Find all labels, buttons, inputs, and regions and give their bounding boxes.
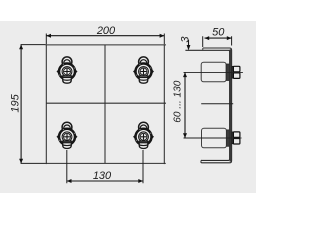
plate front view outline xyxy=(46,44,167,164)
dimension 195 (left height) xyxy=(9,45,45,164)
plate horizontal center line xyxy=(46,102,166,104)
lower hex nut xyxy=(233,132,240,144)
svg-text:195: 195 xyxy=(9,93,21,112)
damper D1 top-left xyxy=(57,57,78,83)
side view bracket inner surface xyxy=(185,48,229,162)
plate vertical center line xyxy=(104,45,106,163)
upper bolt center line xyxy=(184,71,243,73)
upper damper flange washer xyxy=(226,64,229,81)
page background xyxy=(0,0,256,214)
upper damper body side view xyxy=(201,62,226,82)
upper hex nut xyxy=(233,66,240,78)
dimension 130 (bottom damper spacing) xyxy=(67,150,143,183)
gray drawing canvas xyxy=(0,21,256,193)
dimension 50 (flange width) xyxy=(203,26,232,47)
dimension 60...130 (damper vertical spacing) xyxy=(172,72,187,138)
damper D3 bottom-left xyxy=(57,122,78,148)
bracket web solid fill xyxy=(230,49,232,161)
dimension 3 (sheet thickness leader) xyxy=(180,36,192,51)
svg-text:60 ... 130: 60 ... 130 xyxy=(172,80,183,122)
svg-text:200: 200 xyxy=(96,25,116,37)
svg-text:50: 50 xyxy=(212,26,225,38)
damper D4 bottom-right xyxy=(133,122,154,148)
lower bolt center line xyxy=(184,137,242,139)
bracket mid center line xyxy=(201,103,233,105)
lower damper body side view xyxy=(202,128,227,148)
dimension 200 (top width) xyxy=(46,25,164,44)
svg-text:3: 3 xyxy=(180,36,192,43)
side view bracket outer surface (top flange, web, bottom flange) xyxy=(201,48,232,163)
svg-text:130: 130 xyxy=(93,170,112,182)
upper nut washer xyxy=(232,66,234,78)
damper D2 top-right xyxy=(133,57,154,83)
lower damper flange washer xyxy=(227,130,230,146)
lower nut washer xyxy=(232,132,234,144)
